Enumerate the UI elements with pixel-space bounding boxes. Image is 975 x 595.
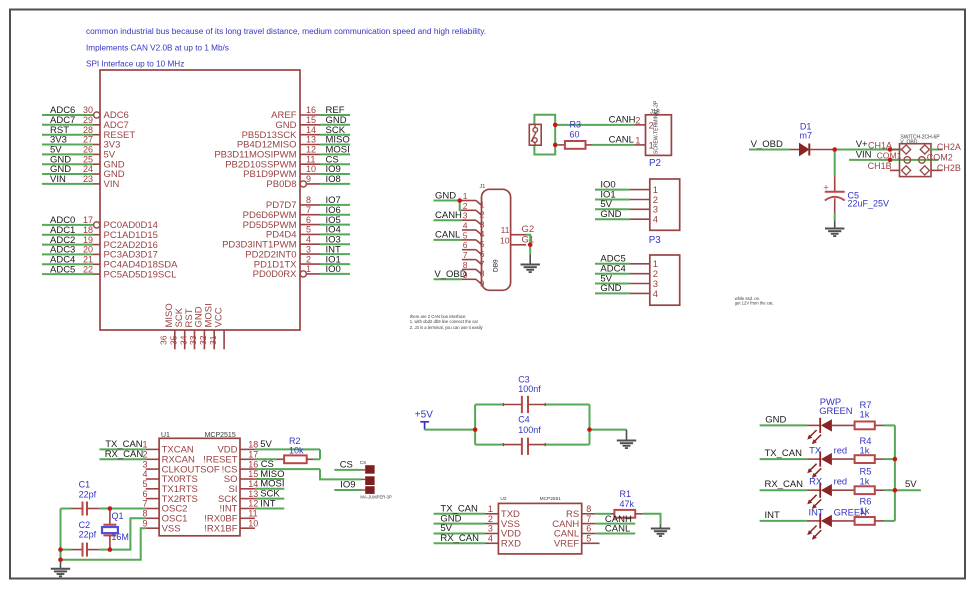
svg-text:RXD: RXD [501, 539, 521, 550]
svg-text:5: 5 [306, 225, 311, 235]
svg-text:VIN: VIN [50, 174, 66, 185]
svg-text:11: 11 [306, 154, 315, 164]
wire SCK at U1 SCK [255, 488, 284, 499]
pin 21 PC4AD4D18SDA with net ADC4 [42, 255, 178, 271]
pin 36 MISO bottom [159, 303, 176, 349]
ground symbol at R1 [651, 524, 670, 536]
wire CANL to J1 pin5 [434, 230, 463, 241]
svg-text:RX_CAN: RX_CAN [440, 533, 479, 544]
svg-text:4: 4 [653, 289, 658, 300]
junction C2 right [108, 547, 113, 552]
pin 28 RESET with net RST [42, 125, 135, 141]
svg-text:COM2: COM2 [927, 153, 953, 163]
svg-text:MCP2551: MCP2551 [540, 496, 562, 502]
junction V+ node [832, 147, 837, 152]
U1 pin 6 TX2RTS [142, 489, 197, 505]
pin 11 PB2D10SSPWM with net CS [225, 154, 350, 170]
pin 10 PB1D9PWM with net IO9 [243, 164, 350, 180]
LED DRX_CAN [807, 483, 855, 509]
svg-text:10: 10 [248, 518, 258, 528]
capacitor C5 22uF_25V polarized [823, 176, 889, 214]
svg-text:5: 5 [480, 239, 485, 249]
pin 16 AREF with net REF [271, 105, 350, 121]
diode D1 m7 [790, 121, 835, 155]
svg-text:RX_CAN: RX_CAN [765, 479, 804, 490]
svg-text:CANH: CANH [609, 115, 636, 126]
svg-text:C1: C1 [79, 480, 91, 490]
wire CANH to J1 pin3 [434, 210, 463, 221]
svg-text:CH2B: CH2B [937, 163, 961, 173]
svg-text:VREF: VREF [554, 539, 580, 550]
svg-text:PB0D8: PB0D8 [266, 179, 296, 190]
header note text [86, 26, 486, 69]
resistor R7 1k [855, 422, 895, 430]
LED DINT [807, 513, 855, 539]
pin 8 PD7D7 with net IO7 [266, 195, 350, 211]
wire decoupling loop [474, 405, 476, 445]
P4 pin 2 net ADC4 [595, 264, 658, 281]
svg-text:1: 1 [635, 135, 640, 145]
svg-text:CS: CS [340, 460, 353, 471]
wire IO9 to jumper bottom [334, 480, 365, 491]
svg-text:60: 60 [570, 129, 580, 139]
svg-text:1k: 1k [860, 505, 870, 516]
J1 pin 5 [462, 230, 485, 249]
svg-text:1k: 1k [860, 409, 870, 420]
U1 pin 2 RXCAN [142, 450, 195, 466]
wire CANL to P2 pin1 [592, 135, 634, 146]
svg-text:SCREW-TERMINAL-2P: SCREW-TERMINAL-2P [654, 100, 660, 154]
crystal Q1 16M [102, 509, 129, 550]
svg-text:G2: G2 [522, 224, 535, 235]
junction rail RX row [893, 488, 898, 493]
wire to ground right [590, 429, 627, 431]
svg-text:18: 18 [83, 225, 93, 235]
pin 17 PC0AD0D14 with net ADC0 [42, 215, 158, 231]
svg-text:red: red [834, 476, 848, 487]
svg-text:10k: 10k [289, 446, 304, 456]
pin 24 GND with net GND [42, 164, 125, 180]
svg-text:14: 14 [248, 479, 258, 489]
P3 pin 2 net IO1 [595, 189, 658, 206]
svg-text:35: 35 [169, 335, 179, 345]
pin 1 PD0D0RX with net IO0 [253, 264, 350, 280]
svg-text:12: 12 [306, 145, 316, 155]
svg-text:CH1B: CH1B [868, 161, 892, 171]
svg-text:IO0: IO0 [326, 264, 341, 275]
wire CANH from U2 [595, 514, 635, 525]
U2 pin 8 RS [566, 504, 595, 520]
svg-text:4: 4 [463, 221, 468, 231]
svg-text:6: 6 [306, 215, 311, 225]
wire CANL from U2 [595, 524, 635, 535]
wire C1 to U1 OSC2 [110, 508, 146, 510]
svg-text:29: 29 [83, 115, 93, 125]
pin 14 PB5D13SCK with net SCK [242, 125, 350, 141]
pin 3 PD2D2INT0 with net INT [245, 244, 350, 260]
U2 pin 4 RXD net RX_CAN [434, 533, 521, 550]
svg-text:30: 30 [83, 105, 93, 115]
wire CS from U1 !CS [255, 459, 320, 470]
connector P4 [650, 255, 680, 305]
svg-text:24: 24 [83, 164, 93, 174]
pin 33 GND bottom [188, 306, 205, 349]
svg-text:GND: GND [600, 283, 621, 294]
P4 pin 3 net 5V [595, 273, 658, 290]
LED labels blue [809, 396, 872, 517]
svg-text:33: 33 [188, 335, 198, 345]
wire CS to jumper top [334, 460, 365, 471]
IC main Arduino socket body [100, 70, 300, 330]
svg-text:7: 7 [142, 499, 147, 509]
svg-text:16: 16 [306, 105, 316, 115]
pin 19 PC2AD2D16 with net ADC2 [42, 235, 158, 251]
P4 pin 4 net GND [595, 283, 658, 300]
svg-text:CH2A: CH2A [937, 142, 961, 152]
svg-text:GREEN: GREEN [819, 405, 852, 416]
svg-text:2: 2 [480, 210, 485, 220]
P4 pin 1 net ADC5 [595, 254, 658, 271]
ground symbol decoupling [617, 430, 636, 449]
J1 pin 1 [462, 191, 485, 210]
svg-text:IO8: IO8 [326, 174, 341, 185]
svg-text:8: 8 [142, 509, 147, 519]
svg-text:SPI Interface up to 10 MHz: SPI Interface up to 10 MHz [86, 60, 184, 69]
U1 pin 5 TX1RTS [142, 479, 197, 495]
svg-text:47k: 47k [620, 499, 635, 509]
resistor R1 47k [595, 489, 643, 518]
pin 32 MOSI bottom [198, 303, 215, 349]
svg-text:U1: U1 [161, 432, 170, 439]
svg-text:6: 6 [586, 524, 591, 534]
pin 13 PB4D12MISO with net MISO [237, 135, 350, 151]
svg-text:20: 20 [83, 245, 93, 255]
wire TX_CAN to U1 pin1 [99, 439, 145, 450]
svg-text:GND: GND [600, 209, 621, 220]
svg-text:RX: RX [809, 476, 823, 487]
svg-text:5V: 5V [905, 479, 917, 490]
svg-text:34: 34 [178, 335, 188, 345]
pin 34 RST bottom [178, 308, 195, 349]
svg-text:VSS: VSS [162, 523, 181, 534]
svg-text:31: 31 [208, 335, 218, 345]
svg-text:15: 15 [248, 469, 258, 479]
svg-text:14: 14 [306, 125, 316, 135]
svg-text:4: 4 [480, 229, 485, 239]
svg-text:5: 5 [586, 534, 591, 544]
jumper JP1 CS select MA-JUMPER-3P [360, 460, 392, 499]
P3 pin 4 net GND [595, 209, 658, 226]
svg-text:GND: GND [765, 414, 786, 425]
J1 pin 11 G2 [501, 224, 535, 235]
U1 pin 18 VDD [217, 440, 258, 456]
junction cap rail right [587, 427, 592, 432]
svg-text:21: 21 [83, 255, 93, 265]
svg-text:36: 36 [159, 335, 169, 345]
P3 pin 3 net 5V [595, 199, 658, 216]
capacitor C2 22pf [61, 520, 110, 557]
capacitor C4 100nf [503, 415, 545, 455]
svg-text:22: 22 [83, 264, 93, 274]
svg-text:IO9: IO9 [340, 480, 355, 491]
junction C1-Q1-OSC2 [108, 506, 113, 511]
svg-text:2. J3 is a terminal, you can u: 2. J3 is a terminal, you can use it easi… [410, 325, 484, 330]
U2 pin 6 CANL [554, 524, 595, 540]
svg-text:CANL: CANL [609, 135, 634, 146]
wire +5V to cap rail [425, 429, 476, 431]
svg-text:P3: P3 [649, 235, 662, 246]
svg-text:5: 5 [463, 230, 468, 240]
pin 27 3V3 with net 3V3 [42, 135, 120, 151]
resistor R6 1k [855, 517, 895, 525]
U1 pin 8 OSC1 [142, 509, 187, 525]
svg-text:5V: 5V [260, 439, 272, 450]
wire jumper middle stub [361, 478, 365, 480]
wire INT to LED [760, 510, 807, 521]
J1 pin 8 [462, 260, 485, 279]
svg-text:!RX1BF: !RX1BF [204, 523, 237, 534]
wire left cap rail [60, 509, 62, 560]
svg-text:P2: P2 [649, 158, 661, 169]
svg-text:VIN: VIN [104, 179, 120, 190]
svg-text:CANL: CANL [605, 524, 630, 535]
svg-text:+5V: +5V [415, 409, 433, 420]
junction left bottom [58, 557, 63, 562]
svg-text:R1: R1 [620, 489, 632, 499]
wire V_OBD to J1 pin9 [434, 269, 467, 280]
svg-text:11: 11 [248, 509, 257, 519]
svg-text:13: 13 [306, 135, 316, 145]
svg-text:INT: INT [260, 498, 276, 509]
U1 pin 3 CLKOUTSOF [142, 459, 219, 475]
svg-text:8: 8 [480, 269, 485, 279]
svg-text:4: 4 [306, 234, 311, 244]
U2 pin 2 VSS net GND [434, 513, 520, 530]
capacitor C1 22pf [61, 480, 110, 516]
svg-text:100nf: 100nf [518, 384, 541, 394]
svg-text:6: 6 [463, 240, 468, 250]
wire R1 to ground [643, 514, 661, 524]
wire C5 to ground [834, 214, 836, 221]
connector J1 DB9 body [480, 184, 511, 290]
svg-text:4: 4 [488, 534, 493, 544]
junction on CANH [553, 123, 558, 128]
svg-text:17: 17 [248, 450, 258, 460]
svg-text:get 12V from the car,: get 12V from the car, [735, 301, 774, 306]
svg-text:28: 28 [83, 125, 93, 135]
wire INT at U1 !INT [255, 498, 284, 509]
svg-text:Q1: Q1 [112, 511, 124, 521]
U1 pin 9 VSS [142, 518, 180, 534]
svg-text:3: 3 [306, 244, 311, 254]
svg-text:1k: 1k [860, 476, 870, 487]
pin 20 PC3AD3D17 with net ADC3 [42, 245, 158, 261]
svg-text:2: 2 [306, 254, 311, 264]
svg-text:VIN: VIN [856, 150, 872, 161]
J1 pin 7 [462, 250, 485, 269]
svg-text:V_OBD: V_OBD [900, 140, 917, 146]
svg-text:2: 2 [463, 201, 468, 211]
wire R2 to 5V rail [319, 449, 321, 459]
svg-text:17: 17 [83, 215, 93, 225]
U1 pin 14 SI [229, 479, 259, 495]
pin 35 SCK bottom [169, 307, 186, 349]
svg-text:9: 9 [480, 279, 485, 289]
svg-text:TX: TX [809, 445, 822, 456]
U2 pin 7 CANH [552, 514, 595, 530]
svg-text:10: 10 [500, 235, 510, 245]
pin 26 5V with net 5V [42, 145, 116, 161]
svg-text:4: 4 [142, 469, 147, 479]
junction cap rail left [473, 427, 478, 432]
wire GND elbow to J1 pin2 [457, 198, 462, 210]
svg-text:16M: 16M [111, 532, 129, 542]
pin 12 PB3D11MOSIPWM with net MOSI [214, 145, 350, 161]
svg-text:13: 13 [248, 489, 258, 499]
svg-text:2: 2 [635, 115, 640, 125]
svg-text:25: 25 [83, 154, 93, 164]
wire CH2A stub [929, 149, 938, 151]
wire V+ down to C5 [834, 150, 836, 177]
svg-text:8: 8 [586, 504, 591, 514]
junction at CH1A [888, 147, 893, 152]
pin 9 PB0D8 with net IO8 [266, 174, 350, 190]
U1 pin 11 !RX0BF [204, 509, 257, 525]
svg-text:23: 23 [83, 174, 93, 184]
svg-text:VCC: VCC [213, 307, 224, 327]
U2 pin 3 VDD net 5V [434, 523, 521, 540]
svg-text:100nf: 100nf [518, 425, 541, 435]
svg-text:1: 1 [463, 191, 468, 201]
wire 5V rail for LEDs [894, 425, 896, 521]
connector P2 screw terminal [634, 100, 671, 169]
IC U2 MCP2551 body [498, 496, 581, 554]
svg-text:15: 15 [306, 115, 316, 125]
svg-text:19: 19 [83, 235, 93, 245]
svg-text:Implements CAN V2.0B at up to: Implements CAN V2.0B at up to 1 Mb/s [86, 44, 229, 53]
svg-text:DB9: DB9 [493, 259, 500, 272]
junction at COM1 [888, 158, 893, 163]
svg-text:3: 3 [480, 219, 485, 229]
J1 pin 4 [462, 221, 485, 240]
svg-text:V_OBD: V_OBD [751, 139, 783, 150]
wire RX_CAN to U1 pin2 [99, 449, 145, 460]
pin 6 PD5D5PWM with net IO5 [243, 215, 350, 231]
pin 31 VCC bottom [208, 307, 225, 349]
svg-text:MCP2515: MCP2515 [205, 432, 236, 439]
svg-text:16: 16 [248, 459, 258, 469]
wire MISO at U1 SO [255, 469, 285, 480]
svg-text:CANH: CANH [435, 210, 462, 221]
U1 pin 10 !RX1BF [204, 518, 258, 534]
switch S1 termination jumper [529, 124, 541, 145]
svg-text:GND: GND [435, 190, 456, 201]
svg-text:22uF_25V: 22uF_25V [848, 198, 890, 208]
U1 pin 12 !INT [220, 499, 259, 515]
wire GND to LED [760, 414, 807, 425]
pin 4 PD3D3INT1PWM with net IO3 [222, 234, 350, 250]
svg-text:7: 7 [463, 250, 468, 260]
svg-text:5: 5 [142, 479, 147, 489]
svg-text:4: 4 [653, 215, 658, 226]
capacitor C3 100nf [503, 375, 545, 414]
svg-text:R2: R2 [289, 436, 301, 446]
svg-text:J1: J1 [480, 184, 486, 190]
svg-text:32: 32 [198, 335, 208, 345]
resistor R5 1k [855, 486, 895, 494]
wire TX_CAN to LED [760, 448, 807, 459]
ground symbol below C5 [825, 220, 844, 236]
U2 pin 5 VREF [554, 534, 600, 550]
note text about CAN interfaces [410, 314, 484, 330]
ground symbol crystal circuit [51, 560, 70, 577]
svg-text:1. with obd2 db9 line connect: 1. with obd2 db9 line connect the car [410, 319, 479, 324]
svg-text:7: 7 [586, 514, 591, 524]
pin 29 ADC7 with net ADC7 [42, 115, 129, 131]
svg-text:ADC5: ADC5 [50, 264, 75, 275]
J1 pin 10 G1 [500, 235, 534, 246]
P3 pin 1 net IO0 [595, 179, 658, 196]
pin 15 GND with net GND [275, 115, 350, 131]
svg-text:TX_CAN: TX_CAN [765, 448, 803, 459]
pin 2 PD1D1TX with net IO1 [254, 254, 350, 270]
svg-text:6: 6 [142, 489, 147, 499]
junction on CANL [553, 143, 558, 148]
svg-text:CS: CS [360, 460, 366, 465]
wire 5V at U1 VDD [255, 439, 320, 450]
LED DTX_CAN [807, 452, 855, 478]
wire MOSI at U1 SI [255, 479, 285, 490]
svg-text:11: 11 [501, 225, 510, 235]
junction left C2 [58, 547, 63, 552]
ground symbol at J1 shield [521, 255, 540, 273]
svg-text:8: 8 [306, 195, 311, 205]
svg-text:C3: C3 [518, 375, 530, 385]
wire termination loop [534, 115, 555, 155]
wire G2/G1 to ground [526, 235, 532, 255]
connector P3 [650, 179, 680, 230]
svg-text:R3: R3 [570, 120, 582, 130]
pin 22 PC5AD5D19SCL with net ADC5 [42, 264, 176, 280]
LED DGND [807, 418, 855, 444]
wire bottom to VSS [61, 528, 146, 560]
resistor R2 10k [255, 436, 320, 463]
resistor R3 60 [555, 120, 592, 149]
pin 23 VIN with net VIN [42, 174, 119, 190]
junction rail TX row [893, 457, 898, 462]
wire 5V label stub [895, 479, 921, 490]
wire V_OBD input [749, 139, 790, 150]
wire Q1 bottom to OSC1 [110, 518, 146, 549]
svg-text:1: 1 [480, 200, 485, 210]
wire !CS elbow to jumper middle [320, 469, 361, 479]
pin 5 PD4D4 with net IO4 [266, 225, 350, 241]
svg-text:V+: V+ [856, 139, 868, 150]
svg-text:INT: INT [809, 507, 824, 518]
svg-text:PD0D0RX: PD0D0RX [253, 269, 297, 280]
pin 18 PC1AD1D15 with net ADC1 [42, 225, 158, 241]
U1 pin 17 !RESET [203, 450, 258, 466]
svg-text:10: 10 [306, 164, 316, 174]
note text about 12V [735, 296, 774, 306]
resistor R4 1k [855, 455, 895, 463]
wire CANH to P2 pin2 [555, 115, 635, 126]
svg-text:22pf: 22pf [79, 489, 97, 499]
U1 pin 15 SO [224, 469, 259, 485]
wire VIN through switch COM1-COM2 [849, 150, 939, 161]
wire GND to J1 pin1 [434, 190, 463, 201]
U1 pin 4 TX0RTS [142, 469, 197, 485]
